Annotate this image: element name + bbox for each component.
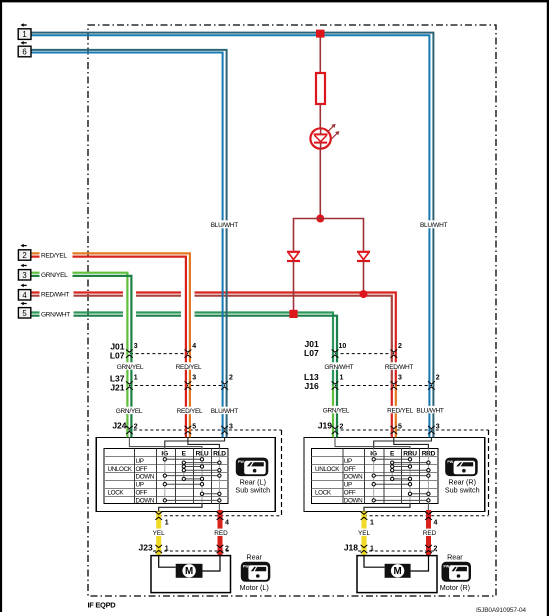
junction dot on RED/WHT wire [360, 290, 368, 298]
connector box 2 [18, 250, 30, 260]
svg-text:OFF: OFF [344, 466, 356, 473]
svg-text:J16: J16 [305, 381, 319, 391]
svg-text:RED/YEL: RED/YEL [176, 364, 202, 371]
rear (L) sub switch box outline [96, 438, 275, 512]
svg-text:M: M [185, 566, 193, 577]
LED arrows [328, 124, 340, 139]
connector label L37/J21 [110, 374, 125, 393]
L13 pin numbers [340, 375, 440, 382]
svg-text:YEL: YEL [153, 530, 166, 537]
connector chevrons J23 [155, 545, 223, 553]
svg-text:J19: J19 [318, 421, 332, 431]
motor (L) symbol [176, 564, 203, 578]
wire labels below J01 left [113, 362, 206, 371]
J01 left pin numbers [134, 343, 197, 350]
connector L13/J16 dashed line [335, 385, 432, 387]
IG column bus (R) [373, 449, 375, 501]
wire 5 label GRN/WHT [40, 310, 74, 317]
RLD column exit to RED output (L) [218, 504, 220, 511]
wire 5 GRN/WHT horizontal and down (right green branch) [31, 313, 333, 386]
svg-text:E: E [182, 450, 187, 457]
svg-text:UP: UP [136, 458, 144, 465]
svg-text:RED: RED [423, 530, 437, 537]
svg-text:PW: PW [447, 460, 453, 464]
chevrons at L13/J16 [332, 381, 435, 389]
rear motor (L) icon [241, 562, 270, 582]
svg-text:GRN/YEL: GRN/YEL [117, 364, 144, 371]
svg-text:OFF: OFF [136, 466, 148, 473]
motor (L) internal wires [159, 556, 220, 571]
svg-text:3: 3 [22, 271, 26, 280]
svg-text:4: 4 [22, 291, 27, 300]
svg-text:LOCK: LOCK [108, 490, 125, 497]
svg-text:5: 5 [398, 423, 402, 430]
routing blue wire to IG column (L) [165, 437, 225, 448]
right diode D2 [357, 252, 370, 261]
svg-text:RED/YEL: RED/YEL [177, 408, 203, 415]
wire 3 label GRN/YEL [40, 271, 73, 278]
svg-text:BLU/WHT: BLU/WHT [420, 222, 447, 229]
svg-text:Sub switch: Sub switch [235, 486, 270, 495]
routing red wire to RRD column (R) [394, 437, 429, 448]
RLU column bus (L) [201, 449, 203, 504]
wire resistor to LED [319, 104, 321, 128]
junction square on wire 1 [316, 30, 325, 38]
J19 pin numbers [340, 423, 440, 430]
svg-text:1: 1 [22, 30, 26, 39]
arrow above box 1 [23, 24, 27, 26]
svg-text:5: 5 [22, 309, 27, 318]
svg-text:1: 1 [165, 546, 169, 553]
dash-dot harness boundary box [88, 25, 496, 596]
svg-text:RED: RED [214, 530, 228, 537]
svg-text:DOWN: DOWN [344, 474, 363, 481]
svg-text:YEL: YEL [358, 530, 371, 537]
svg-text:I5JB0A910957-04: I5JB0A910957-04 [476, 607, 526, 614]
svg-text:L07: L07 [304, 348, 319, 358]
svg-text:2: 2 [134, 423, 138, 430]
svg-text:UP: UP [344, 482, 352, 489]
svg-text:L07: L07 [110, 351, 125, 361]
wire 3 GRN/YEL horizontal and down (left green branch) [31, 273, 128, 438]
switch contact table (L) [104, 449, 228, 504]
svg-text:2: 2 [229, 375, 233, 382]
page border left [0, 0, 2, 612]
chevrons at J01/L07 right [332, 350, 398, 358]
table header labels (R) [370, 450, 435, 457]
arrow above box 3 [23, 265, 27, 267]
switch contact table (R) [312, 449, 439, 504]
LED illumination lamp symbol [310, 128, 330, 148]
connector box 5 [18, 308, 30, 318]
wire 2 RED/YEL horizontal and down (left red branch) [31, 253, 190, 437]
chevrons at J24 [126, 426, 228, 434]
svg-text:J24: J24 [112, 421, 126, 431]
svg-text:OFF: OFF [344, 489, 356, 496]
arrow above box 6 [23, 42, 27, 44]
connector box 3 [18, 270, 30, 280]
resistor R (illumination) [316, 73, 325, 104]
switch contacts (R) [372, 458, 430, 502]
chevrons at J19 [332, 426, 435, 434]
svg-text:DOWN: DOWN [136, 474, 155, 481]
wire labels below J01 right [321, 362, 417, 371]
IG column bus (L) [164, 449, 166, 501]
RRU column bus (R) [409, 449, 411, 504]
svg-text:J21: J21 [110, 383, 124, 393]
wire labels below L13 [319, 406, 447, 415]
wire right diode to RED/WHT junction [363, 261, 365, 294]
wire RED/YEL continuation right branch below L13 [391, 386, 393, 438]
svg-text:3: 3 [134, 343, 138, 350]
lamp circuit wire from junction on wire 1 down to resistor [319, 34, 321, 73]
rear motor (R) labels [440, 553, 470, 592]
svg-text:PW: PW [243, 564, 249, 568]
connector box 4 [18, 290, 30, 300]
svg-text:DOWN: DOWN [136, 497, 155, 504]
svg-text:4: 4 [192, 343, 196, 350]
RED wire sub switch (R) to motor [426, 510, 431, 556]
sub switch output dashed line right [364, 515, 489, 517]
svg-text:GRN/YEL: GRN/YEL [323, 407, 350, 414]
wire LED to diode junction [319, 149, 321, 219]
rear motor (L) labels [240, 553, 269, 592]
connector chevrons at sub switch output (L) [155, 512, 223, 520]
chevrons at L37/J21 [126, 381, 228, 389]
RLD column bus (L) [218, 449, 220, 504]
svg-text:BLU/WHT: BLU/WHT [211, 222, 238, 229]
wire left diode to GRN/WHT junction [293, 261, 295, 310]
connector chevrons at sub switch output (R) [361, 512, 432, 520]
page border top [0, 0, 549, 2]
svg-text:2: 2 [22, 251, 26, 260]
svg-text:Rear: Rear [447, 553, 463, 562]
YEL RED color labels (L) [150, 529, 229, 538]
dashed boundary vertical left branch [281, 430, 283, 516]
svg-text:UNLOCK: UNLOCK [108, 466, 133, 473]
page border right [547, 0, 549, 616]
svg-text:RED/YEL: RED/YEL [387, 407, 413, 414]
svg-text:1: 1 [134, 375, 138, 382]
connector J01/L07 left dashed line [130, 353, 188, 355]
connector J19 dashed line [335, 429, 489, 431]
wire junction to left diode [294, 219, 321, 251]
svg-text:BLU/WHT: BLU/WHT [416, 407, 443, 414]
svg-text:DOWN: DOWN [344, 497, 363, 504]
RLU column exit to YEL output (L) [159, 504, 202, 512]
svg-text:3: 3 [398, 375, 402, 382]
svg-text:Rear: Rear [246, 553, 262, 562]
YEL wire sub switch (L) to motor [156, 511, 161, 556]
rear (R) sub switch icon [445, 458, 478, 477]
junction square on GRN/WHT wire [289, 310, 297, 318]
svg-text:Sub switch: Sub switch [445, 486, 480, 495]
routing blue wire to IG column (R) [374, 437, 432, 448]
routing green wire to RRU column (R) [335, 437, 410, 448]
connector J18 pin labels [370, 546, 438, 553]
switch row labels (L) [108, 458, 155, 504]
wire 4 label RED/WHT [40, 290, 74, 297]
connector J01/L07 right dashed line [335, 353, 394, 355]
YEL RED color labels (R) [356, 529, 439, 538]
switch contacts (L) [163, 458, 221, 502]
connector J18 dashed line [358, 550, 437, 552]
svg-text:2: 2 [225, 546, 229, 553]
connector L37/J21 dashed line [129, 385, 225, 387]
J01 right pin numbers [339, 343, 403, 350]
rear (R) sub switch box outline [304, 438, 485, 512]
routing green wire to RLU column (L) [129, 437, 202, 448]
svg-text:1: 1 [165, 520, 169, 527]
wire 6 BLU/WHT from connector box 6 and down left side to J24 [31, 50, 227, 438]
svg-text:OFF: OFF [136, 489, 148, 496]
svg-text:1: 1 [340, 375, 344, 382]
svg-text:4: 4 [434, 520, 438, 527]
switch row labels (R) [315, 458, 363, 504]
wire 1 BLU/WHT from connector box 1 across top and down right side to J19 [31, 33, 433, 438]
connector box 1 [18, 29, 31, 40]
output pin labels (R) [370, 520, 438, 527]
table header labels (L) [161, 450, 226, 457]
L37 pin numbers [134, 375, 233, 382]
motor (R) internal wires [364, 556, 429, 571]
svg-text:4: 4 [225, 520, 229, 527]
RRU column exit to YEL output (R) [364, 504, 410, 512]
svg-text:J18: J18 [344, 542, 358, 552]
left diode D1 [287, 252, 300, 261]
connector J24 dashed line [128, 429, 282, 431]
svg-text:1: 1 [370, 520, 374, 527]
svg-text:UP: UP [136, 482, 144, 489]
connector box 6 [18, 46, 31, 57]
svg-text:6: 6 [22, 48, 26, 57]
arrow above box 5 [23, 303, 27, 305]
E column bus (R) [391, 463, 393, 479]
E column bus (L) [183, 463, 185, 479]
output pin labels (L) [165, 520, 229, 527]
svg-text:LOCK: LOCK [315, 490, 332, 497]
diode junction node [316, 215, 324, 223]
connector J23 dashed line [153, 550, 231, 552]
connector J23 pin labels [165, 546, 229, 553]
wire junction to right diode [320, 219, 363, 251]
RED wire sub switch (L) to motor [218, 510, 223, 556]
svg-text:GRN/WHT: GRN/WHT [41, 312, 70, 319]
svg-text:IF EQPD: IF EQPD [88, 601, 117, 610]
svg-text:5: 5 [192, 423, 196, 430]
svg-text:PW: PW [238, 460, 244, 464]
rear (L) sub switch icon [236, 458, 268, 477]
arrow above box 4 [23, 284, 27, 286]
connector label J01/L07 right [304, 339, 319, 358]
svg-text:10: 10 [339, 343, 347, 350]
svg-text:GRN/YEL: GRN/YEL [41, 272, 68, 279]
rear motor (R) icon [442, 562, 472, 582]
rear (L) sub switch label [235, 478, 270, 495]
RRD column exit to RED output (R) [427, 504, 429, 511]
svg-text:3: 3 [229, 423, 233, 430]
svg-text:RED/WHT: RED/WHT [385, 364, 414, 371]
dashed boundary vertical right branch [488, 430, 490, 516]
svg-text:2: 2 [434, 546, 438, 553]
rear motor (L) box [151, 556, 231, 593]
wire labels below L37 [112, 407, 241, 416]
wire 4 RED/WHT horizontal and down (right red branch) [31, 293, 396, 386]
RRD column bus (R) [427, 449, 429, 504]
svg-text:Motor (R): Motor (R) [440, 583, 470, 592]
rear motor (R) box [357, 556, 437, 593]
wire 2 label RED/YEL [40, 251, 73, 258]
YEL wire sub switch (R) to motor [362, 511, 367, 556]
svg-text:3: 3 [192, 375, 196, 382]
svg-text:BLU/WHT: BLU/WHT [211, 408, 238, 415]
svg-text:2: 2 [436, 375, 440, 382]
svg-text:E: E [390, 450, 395, 457]
connector label J01/L07 left [110, 342, 125, 361]
BLU/WHT label right vertical [420, 220, 447, 228]
arrow above box 2 [23, 245, 27, 247]
rear (R) sub switch label [445, 478, 480, 495]
connector label L13/J16 [304, 372, 319, 391]
svg-text:3: 3 [436, 423, 440, 430]
wire GRN/YEL continuation right branch below L13 [332, 386, 334, 438]
svg-text:PW: PW [443, 564, 449, 568]
svg-text:1: 1 [370, 546, 374, 553]
svg-text:J23: J23 [139, 542, 153, 552]
routing red wire to RLD column (L) [188, 437, 220, 448]
svg-text:2: 2 [398, 343, 402, 350]
svg-text:M: M [394, 566, 402, 577]
svg-text:GRN/YEL: GRN/YEL [116, 408, 143, 415]
BLU/WHT label left vertical [211, 220, 238, 228]
svg-text:GRN/WHT: GRN/WHT [324, 364, 353, 371]
motor (R) symbol [385, 564, 411, 578]
sub switch output dashed line left [159, 515, 282, 517]
svg-text:RED/WHT: RED/WHT [41, 292, 70, 299]
connector chevrons J18 [361, 545, 432, 553]
chevrons at J01/L07 left [126, 350, 191, 358]
svg-text:UP: UP [344, 458, 352, 465]
J24 pin numbers [134, 423, 233, 430]
svg-text:Motor (L): Motor (L) [240, 583, 269, 592]
svg-text:UNLOCK: UNLOCK [315, 466, 340, 473]
svg-text:2: 2 [340, 423, 344, 430]
svg-text:RED/YEL: RED/YEL [41, 253, 67, 260]
